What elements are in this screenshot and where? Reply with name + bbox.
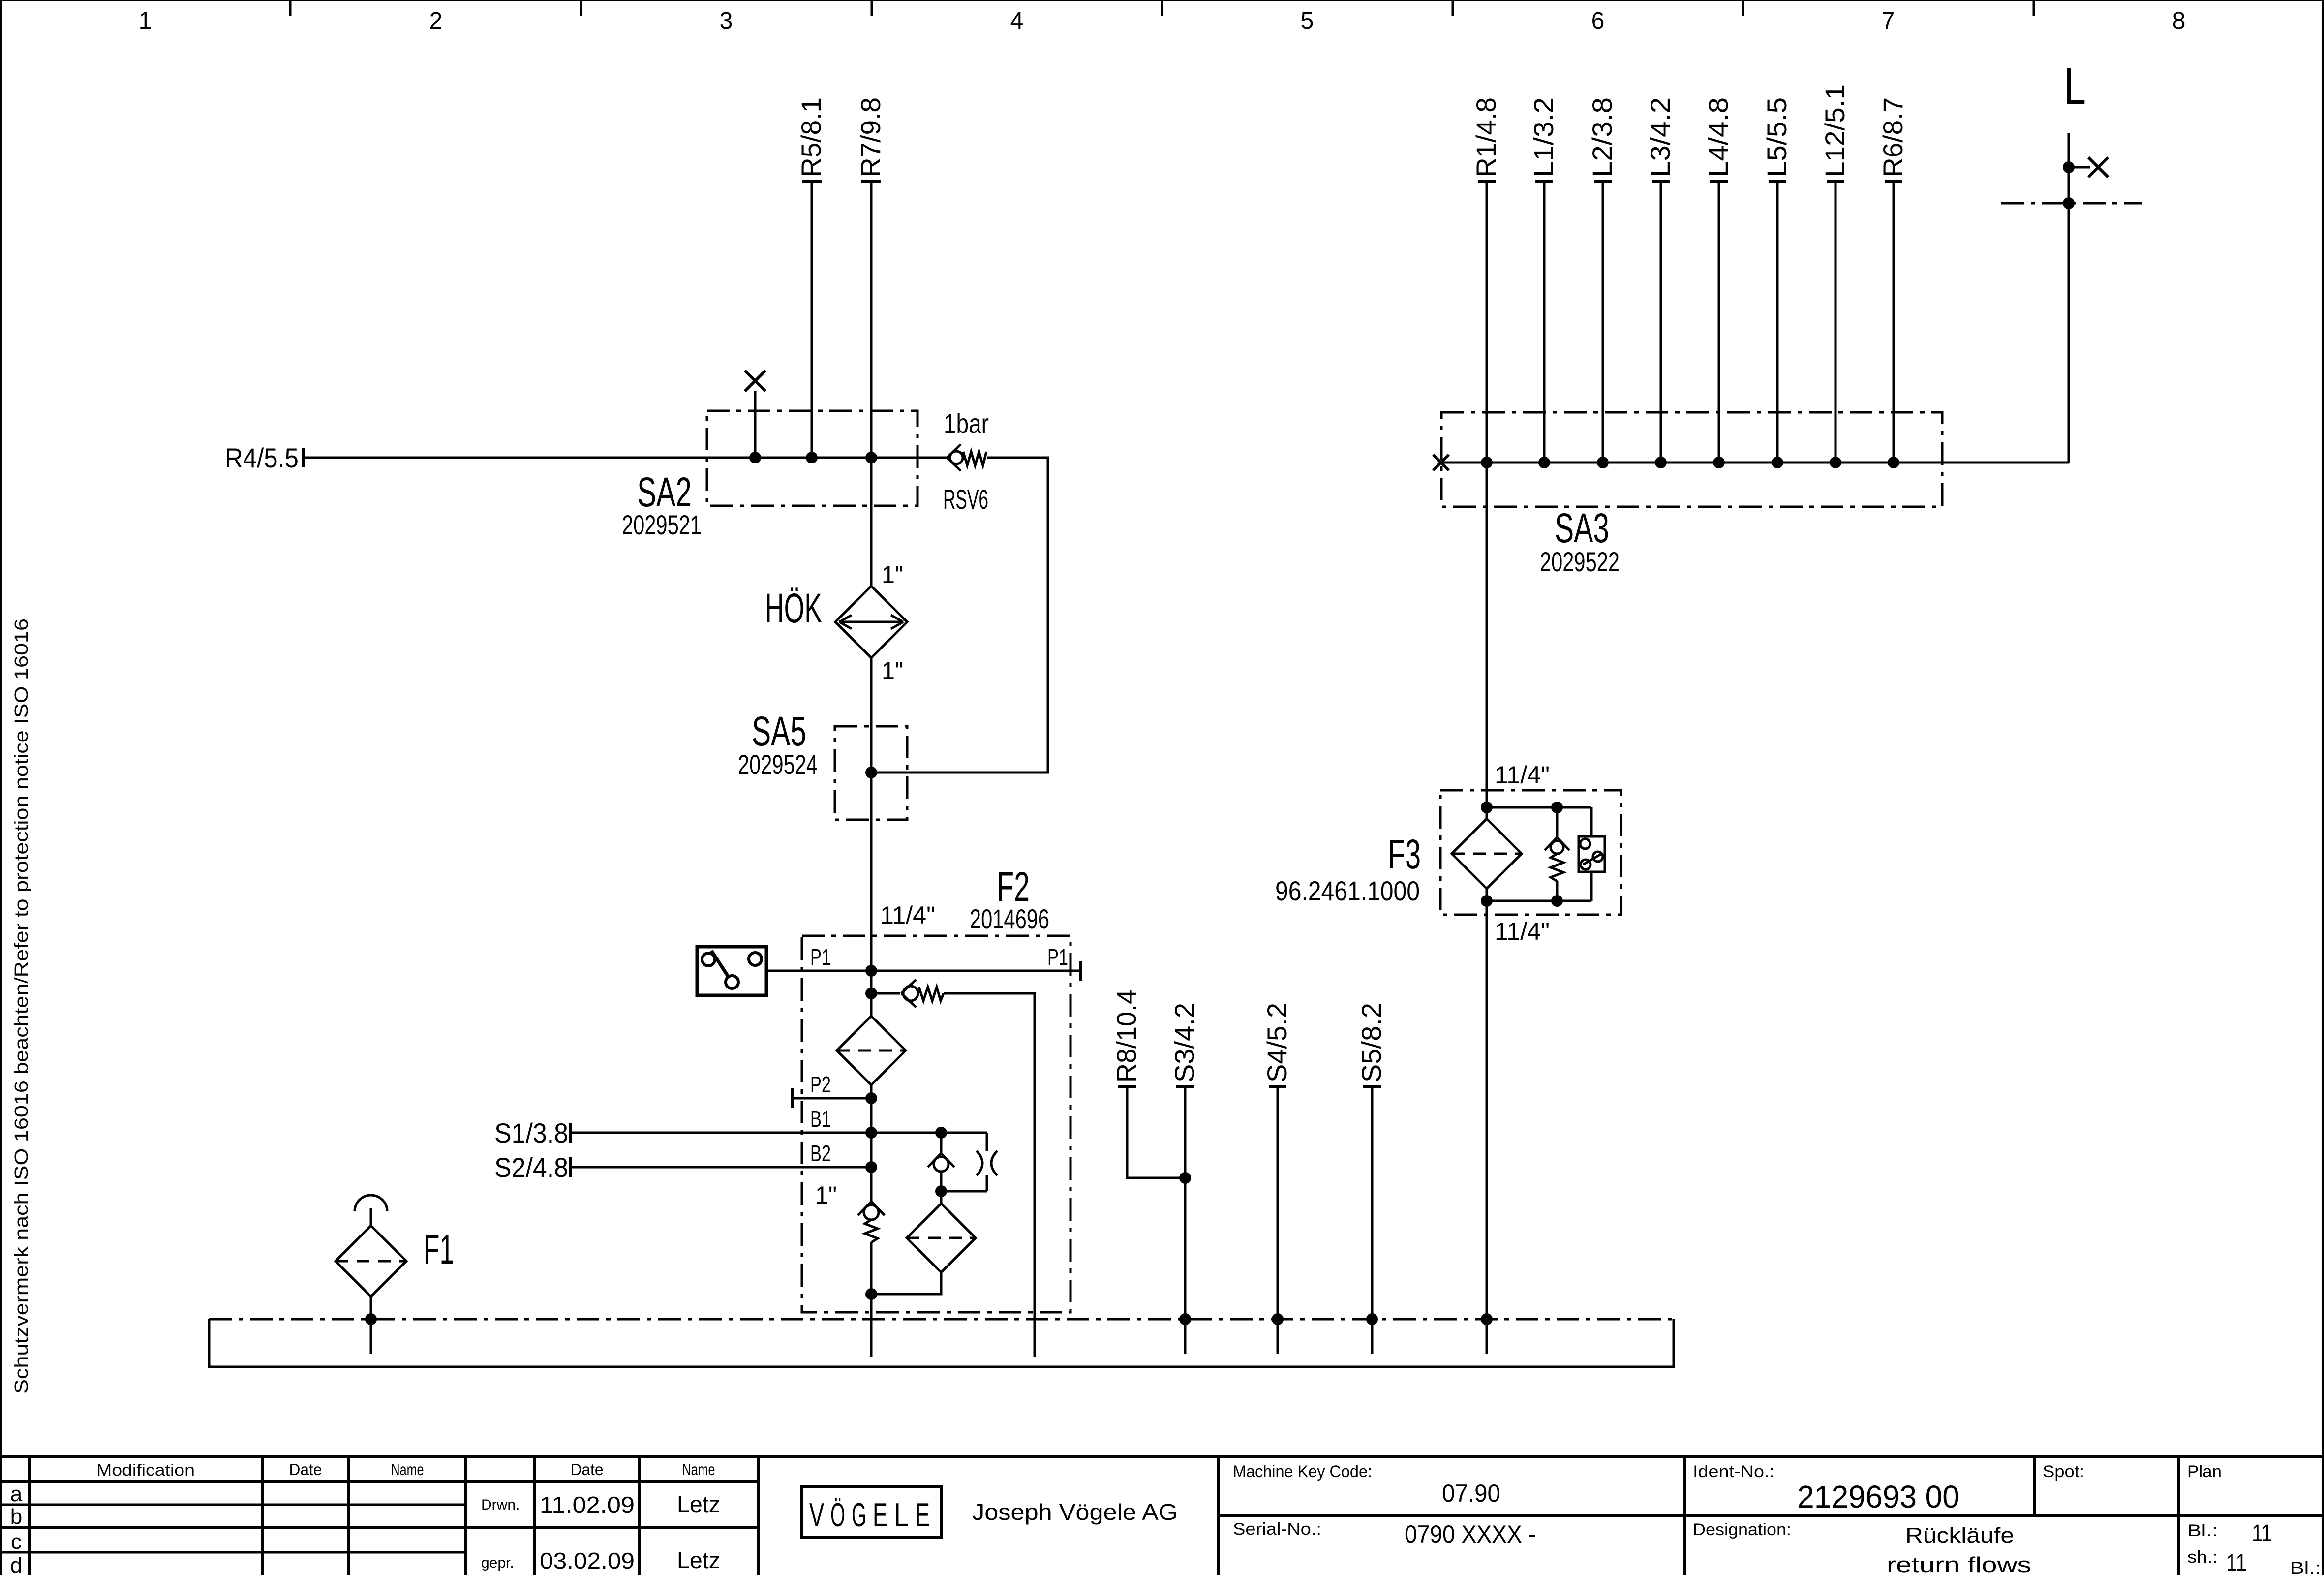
svg-text:L2/3.8: L2/3.8 [1587, 97, 1618, 177]
junction on R4 bus at R5 line [806, 452, 818, 463]
junction branch rejoin [935, 1185, 947, 1197]
svg-text:F2: F2 [997, 864, 1030, 910]
svg-text:6: 6 [1591, 8, 1605, 34]
svg-text:R1/4.8: R1/4.8 [1470, 97, 1501, 177]
frame right border [2322, 0, 2324, 1575]
wire main riser below HOK [870, 658, 873, 1016]
svg-text:Spot:: Spot: [2043, 1462, 2084, 1481]
svg-text:F3: F3 [1388, 831, 1421, 877]
junction R1 tank [1481, 1313, 1493, 1325]
junction L12 bus [1830, 457, 1841, 468]
svg-text:F1: F1 [424, 1226, 454, 1272]
svg-text:8: 8 [2172, 8, 2186, 34]
port tick L1 [1535, 180, 1553, 183]
wire F3 bottom header [1487, 900, 1591, 902]
HOK arrow [839, 615, 903, 629]
wire S3 [1184, 1087, 1187, 1354]
svg-text:2014696: 2014696 [970, 903, 1049, 934]
svg-text:c: c [11, 1530, 22, 1554]
svg-text:96.2461.1000: 96.2461.1000 [1275, 875, 1420, 906]
wire S4 [1277, 1087, 1279, 1354]
svg-text:11/4": 11/4" [1495, 761, 1550, 789]
svg-text:SA2: SA2 [637, 469, 692, 515]
title block top line [0, 1455, 2324, 1458]
junction R6 bus [1888, 457, 1899, 468]
svg-text:R5/8.1: R5/8.1 [795, 97, 826, 177]
node R4/5.5 port tick [302, 448, 305, 467]
svg-text:gepr.: gepr. [481, 1555, 514, 1571]
port tick S2 [569, 1157, 572, 1177]
svg-text:L5/5.5: L5/5.5 [1761, 97, 1792, 177]
filter element diamond F3 [1452, 819, 1522, 889]
junction L1 bus [1538, 457, 1550, 468]
svg-text:1": 1" [882, 657, 903, 684]
junction L2 bus [1597, 457, 1609, 468]
svg-text:Plan: Plan [2187, 1462, 2222, 1481]
junction main-bypass [865, 988, 877, 999]
junction F3 bottom main [1481, 895, 1493, 907]
port tick L5 [1769, 180, 1786, 183]
wire RSV6 output to riser [871, 458, 1048, 772]
main check valve F2 [858, 1085, 885, 1357]
svg-text:2029524: 2029524 [738, 749, 818, 780]
svg-text:b: b [10, 1505, 22, 1529]
svg-text:E: E [915, 1496, 930, 1534]
junction L3 bus [1655, 457, 1667, 468]
wire plugged stub in SA2 [754, 391, 757, 458]
filter F1 diamond [336, 1226, 406, 1354]
svg-text:11.02.09: 11.02.09 [540, 1492, 635, 1517]
wire B1 line [571, 1132, 987, 1134]
junction main-B2 [865, 1161, 877, 1173]
wire SA3 bus [1441, 462, 2069, 464]
wire L riser [2068, 133, 2070, 463]
svg-text:R7/9.8: R7/9.8 [855, 97, 886, 177]
port tick S5 [1363, 1085, 1381, 1088]
svg-text:Date: Date [289, 1460, 322, 1479]
junction main-B1 [865, 1127, 877, 1139]
orifice restrictor F2 [941, 1133, 997, 1191]
wire P2 [793, 1097, 871, 1100]
junction B1-branch [935, 1127, 947, 1139]
svg-text:sh.:: sh.: [2187, 1548, 2218, 1567]
svg-text:2029521: 2029521 [622, 509, 702, 540]
svg-text:RSV6: RSV6 [943, 484, 988, 515]
port tick L3 [1652, 180, 1670, 183]
svg-text:L: L [894, 1496, 909, 1534]
junction main-P2 [865, 1092, 877, 1104]
port tick R5 [802, 180, 822, 183]
svg-text:Ö: Ö [830, 1496, 845, 1534]
junction F3 top main [1481, 802, 1493, 813]
svg-text:4: 4 [1010, 8, 1024, 34]
svg-text:2129693 00: 2129693 00 [1797, 1479, 1959, 1514]
svg-text:1": 1" [882, 561, 903, 588]
svg-text:7: 7 [1882, 8, 1895, 34]
svg-text:Name: Name [391, 1460, 424, 1479]
branch check valve F2 [928, 1133, 954, 1191]
svg-text:0790 XXXX -: 0790 XXXX - [1405, 1520, 1536, 1548]
svg-text:L: L [2064, 58, 2086, 116]
port tick R6 [1885, 180, 1902, 183]
svg-text:E: E [873, 1496, 887, 1534]
junction L boundary [2063, 197, 2075, 209]
svg-text:1bar: 1bar [944, 408, 989, 439]
filter element diamond F2 upper [837, 1016, 906, 1085]
svg-text:S2/4.8: S2/4.8 [494, 1152, 568, 1183]
svg-text:a: a [10, 1482, 23, 1506]
wire L4 line [1718, 181, 1720, 463]
svg-text:S3/4.2: S3/4.2 [1169, 1003, 1200, 1082]
svg-text:L12/5.1: L12/5.1 [1819, 84, 1850, 177]
svg-text:SA3: SA3 [1555, 505, 1609, 551]
row letters a b c d [10, 1482, 23, 1575]
revision table headers [96, 1460, 715, 1479]
wire R1 to tank [1486, 889, 1488, 1354]
wire L12 line [1835, 181, 1837, 463]
svg-text:Date: Date [571, 1460, 604, 1479]
junction L4 bus [1713, 457, 1725, 468]
svg-text:3: 3 [720, 8, 733, 34]
svg-text:Joseph Vögele AG: Joseph Vögele AG [972, 1499, 1178, 1525]
svg-text:Drwn.: Drwn. [481, 1497, 520, 1513]
junction at SA5 [865, 767, 877, 778]
junction L stub [2063, 161, 2075, 173]
svg-text:SA5: SA5 [752, 708, 806, 754]
junction F3 bottom branch [1551, 895, 1563, 907]
check valve RSV6 [947, 444, 986, 471]
column numbers 1-8 [139, 8, 2186, 34]
svg-text:Designation:: Designation: [1693, 1520, 1791, 1539]
junction R1 bus [1481, 457, 1493, 468]
tank return dash-dot line [209, 1318, 1674, 1321]
plugged port X at L [2088, 157, 2108, 177]
bypass check valve F3 [1545, 807, 1569, 901]
column tick marks on top border [290, 1, 2034, 16]
svg-text:d: d [10, 1553, 22, 1575]
port tick S4 [1269, 1085, 1286, 1088]
wire S5 [1371, 1087, 1374, 1354]
frame left border [0, 0, 2, 1575]
svg-text:B2: B2 [810, 1141, 831, 1166]
port tick L12 [1827, 180, 1844, 183]
heat exchanger HOK diamond [835, 586, 907, 658]
svg-text:HÖK: HÖK [765, 585, 822, 631]
wire P1 line [767, 970, 1080, 972]
junction S4 tank [1272, 1313, 1284, 1325]
junction S5 tank [1366, 1313, 1378, 1325]
svg-text:S1/3.8: S1/3.8 [494, 1117, 568, 1148]
port tick S1 [569, 1123, 572, 1143]
svg-text:Bl.:: Bl.: [2187, 1521, 2218, 1540]
junction S3 tank [1179, 1313, 1191, 1325]
svg-text:Schutzvermerk nach ISO 16016 b: Schutzvermerk nach ISO 16016 beachten/Re… [11, 618, 32, 1394]
wire R1 to F3 [1486, 463, 1488, 819]
svg-text:L4/4.8: L4/4.8 [1703, 97, 1734, 177]
svg-text:V: V [809, 1496, 824, 1534]
enclosure F2 dash-dot box [802, 936, 1070, 1312]
svg-text:R8/10.4: R8/10.4 [1111, 989, 1142, 1082]
svg-text:R6/8.7: R6/8.7 [1877, 97, 1908, 177]
svg-text:1": 1" [815, 1181, 837, 1209]
title block horizontals [0, 1482, 2324, 1527]
pressure switch S (left of F2) [697, 947, 766, 995]
enclosure SA3 dash-dot box [1441, 412, 1942, 507]
svg-text:S5/8.2: S5/8.2 [1356, 1003, 1387, 1082]
plugged port X on SA3 bus [1433, 455, 1449, 470]
svg-text:1: 1 [139, 8, 152, 34]
L boundary dash-dot line [2001, 202, 2142, 205]
svg-text:L1/3.2: L1/3.2 [1528, 97, 1559, 177]
tank outline [209, 1319, 1674, 1367]
port tick L2 [1594, 180, 1612, 183]
port tick R7 [861, 180, 881, 183]
svg-text:P2: P2 [810, 1072, 831, 1097]
svg-text:11: 11 [2252, 1520, 2272, 1546]
VOGELE logo box [801, 1487, 941, 1537]
svg-text:Serial-No.:: Serial-No.: [1233, 1520, 1321, 1539]
svg-text:5: 5 [1301, 8, 1314, 34]
svg-text:11/4": 11/4" [880, 901, 935, 929]
svg-text:Letz: Letz [677, 1491, 720, 1517]
wire L2 line [1602, 181, 1604, 463]
wire R8 [1127, 1087, 1185, 1178]
svg-text:11/4": 11/4" [1495, 918, 1550, 945]
title block verticals [29, 1457, 2179, 1575]
wire L5 line [1776, 181, 1779, 463]
port tick R1 [1478, 180, 1496, 183]
svg-text:S4/5.2: S4/5.2 [1261, 1003, 1292, 1082]
port tick S3 [1176, 1085, 1194, 1088]
svg-text:B1: B1 [810, 1106, 831, 1132]
junction on R4 bus at R7 line [865, 452, 877, 463]
junction F1 tank [365, 1313, 377, 1325]
svg-text:P1: P1 [1047, 944, 1068, 970]
junction L5 bus [1772, 457, 1783, 468]
wire L3 line [1660, 181, 1662, 463]
filter F1 breather [355, 1195, 387, 1226]
enclosure SA2 dash-dot box [707, 411, 917, 506]
junction F3 top branch [1551, 802, 1563, 813]
wire R4 bus [303, 457, 948, 459]
port tick P1 right [1079, 961, 1082, 981]
wire R1 line [1486, 181, 1488, 463]
enclosure SA5 dash-dot box [835, 726, 907, 820]
svg-text:Ident-No.:: Ident-No.: [1693, 1462, 1774, 1481]
junction R8-S3 [1179, 1172, 1191, 1184]
junction main-P1 [865, 965, 877, 977]
svg-text:Rückläufe: Rückläufe [1905, 1523, 2014, 1547]
clogging switch F3 [1579, 807, 1605, 901]
svg-text:P1: P1 [810, 944, 831, 970]
wire R7 line [870, 181, 873, 458]
svg-text:R4/5.5: R4/5.5 [225, 442, 299, 473]
svg-text:03.02.09: 03.02.09 [540, 1548, 635, 1574]
svg-text:Machine Key Code:: Machine Key Code: [1233, 1462, 1372, 1481]
svg-text:Modification: Modification [96, 1461, 195, 1479]
wire B2 line [571, 1166, 871, 1169]
junction on R4 bus at plugged stub [749, 452, 761, 463]
port tick R8 [1118, 1085, 1136, 1088]
svg-text:07.90: 07.90 [1442, 1480, 1500, 1507]
svg-text:Name: Name [682, 1460, 715, 1479]
bypass check valve F2 [871, 980, 1035, 1357]
filter element diamond F2 lower [871, 1191, 976, 1294]
svg-text:L3/4.2: L3/4.2 [1645, 97, 1676, 177]
frame top border [0, 0, 2324, 1]
wire F3 top header [1487, 806, 1591, 809]
wire R5 line [811, 181, 813, 458]
wire L stub to plug [2069, 166, 2090, 169]
port tick L4 [1710, 180, 1728, 183]
wire main riser upper [870, 458, 873, 586]
wire L1 line [1543, 181, 1546, 463]
svg-text:return flows: return flows [1887, 1553, 2031, 1575]
enclosure F3 dash-dot box [1440, 790, 1621, 915]
svg-text:2029522: 2029522 [1540, 546, 1620, 577]
plugged port X symbol SA2 [745, 371, 765, 391]
wire R6 line [1893, 181, 1895, 463]
svg-text:Letz: Letz [677, 1547, 720, 1573]
svg-text:Bl.:: Bl.: [2290, 1559, 2321, 1575]
svg-text:2: 2 [429, 8, 443, 34]
port tick P2 [791, 1088, 794, 1108]
svg-text:11: 11 [2226, 1550, 2247, 1575]
junction main drain [865, 1288, 877, 1300]
svg-text:G: G [852, 1496, 866, 1534]
